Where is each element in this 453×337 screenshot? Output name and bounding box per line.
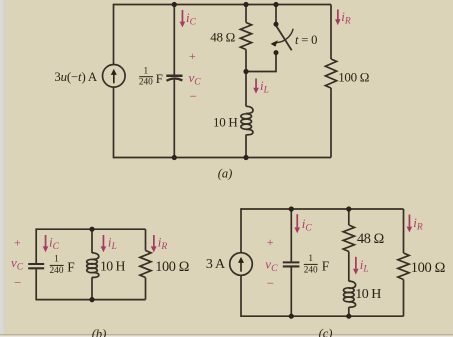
svg-text:1: 1 <box>143 66 148 76</box>
node dot switch-top (a) <box>273 2 278 7</box>
switch motion arc (a) <box>274 29 294 43</box>
wire: resistor to bottom rail (c) <box>403 280 405 317</box>
source arrows (black) <box>111 40 278 271</box>
wire: top rail (b) <box>36 228 145 230</box>
inductor L1 coil (a) <box>246 106 253 113</box>
wire: capacitor branch lower (a) <box>173 79 175 158</box>
left page-edge strip <box>0 0 4 337</box>
svg-text:48 Ω: 48 Ω <box>357 231 384 247</box>
svg-text:−: − <box>190 89 197 104</box>
svg-text:−: − <box>267 276 274 291</box>
capacitor C1 curved plate (a) <box>167 79 183 81</box>
source arrow (c) <box>240 261 242 272</box>
arrow iC (c) <box>296 214 298 227</box>
capacitor C3 top plate (c) <box>283 261 300 263</box>
node dot inductor-bottom (b) <box>89 297 94 302</box>
wire: bottom rail (c) <box>241 315 404 317</box>
svg-text:−: − <box>14 275 21 290</box>
arrow iC (b) <box>45 235 47 247</box>
svg-text:F: F <box>156 72 163 86</box>
svg-text:10 H: 10 H <box>355 287 381 302</box>
current source I1 circle (a) <box>103 65 126 88</box>
svg-text:100 Ω: 100 Ω <box>155 259 189 275</box>
svg-text:100 Ω: 100 Ω <box>411 260 446 276</box>
arrow iL (b) <box>103 235 105 247</box>
node dot inductor-top (b) <box>89 227 94 232</box>
arrow iL (c) <box>355 257 357 269</box>
wire: switch branch upper stub (a) <box>275 5 277 24</box>
wire: bottom rail (a) <box>114 157 332 159</box>
wire: 48-ohm to junction (a) <box>245 50 247 107</box>
node dot inductor-bottom (a) <box>243 155 248 160</box>
wire: inductor to bottom rail (b) <box>91 277 93 299</box>
wire: top rail (a) <box>114 4 332 6</box>
wire: resistor to bottom rail (b) <box>145 278 147 300</box>
svg-text:F: F <box>67 260 74 275</box>
capacitor C1 top plate (a) <box>166 74 182 77</box>
capacitor C2 top plate (b) <box>28 263 44 265</box>
svg-text:1: 1 <box>54 255 59 265</box>
resistor R48 zigzag (c) <box>343 225 354 252</box>
wire: left branch below source (a) <box>113 87 115 158</box>
wire: left branch above source (a) <box>113 4 115 65</box>
wire: inductor branch upper (b) <box>91 229 93 253</box>
switch upper terminal (a) <box>274 22 279 27</box>
arrow iR (a) <box>337 10 339 21</box>
switch blade (a) <box>276 26 292 51</box>
wire: cap branch upper (c) <box>290 209 292 261</box>
arrow iR (b) <box>153 235 155 247</box>
capacitor C3 bottom plate (c) <box>283 265 300 267</box>
svg-text:(b): (b) <box>92 327 107 337</box>
node dot middle-top (c) <box>346 206 351 211</box>
node dot 48ohm-top (a) <box>243 2 248 7</box>
svg-text:(c): (c) <box>319 327 333 337</box>
svg-text:1: 1 <box>308 254 313 264</box>
svg-text:3 A: 3 A <box>206 257 226 272</box>
svg-text:+: + <box>189 49 196 63</box>
wire: 48-ohm branch top stub (a) <box>245 5 247 23</box>
wire: switch lower stub to elbow (a) <box>245 54 276 72</box>
inductor L2 coil (b) <box>92 253 99 260</box>
label 1/240 F (b) <box>50 255 75 276</box>
svg-text:240: 240 <box>50 266 64 276</box>
wire: capacitor branch upper (a) <box>173 5 175 76</box>
wire: 100-ohm to bottom rail (a) <box>330 88 332 158</box>
arrow iL (a) <box>255 79 257 89</box>
switch lower terminal (a) <box>274 50 279 55</box>
current source I2 circle (c) <box>230 253 253 276</box>
wire: middle branch top stub (c) <box>348 209 350 225</box>
svg-text:+: + <box>267 235 274 249</box>
label 1/240 F (c) <box>304 254 330 276</box>
node dot cap-top (a) <box>172 2 177 7</box>
svg-text:240: 240 <box>304 265 318 275</box>
wire: bottom rail (b) <box>36 299 145 301</box>
resistor R100 zigzag (a) <box>325 59 336 88</box>
wire: 100-ohm branch top stub (a) <box>330 5 332 60</box>
svg-text:3u(−t) A: 3u(−t) A <box>54 70 98 84</box>
wire: resistor to inductor (c) <box>348 252 350 282</box>
wire: inductor to bottom rail (c) <box>348 307 350 316</box>
svg-text:(a): (a) <box>218 166 233 180</box>
pink current arrows <box>43 10 413 275</box>
source arrow (a) <box>113 73 115 84</box>
svg-text:F: F <box>322 259 329 274</box>
wire: source branch upper (c) <box>240 208 242 253</box>
wire: inductor to bottom rail (a) <box>245 135 247 158</box>
wire: top rail (c) <box>241 208 404 210</box>
svg-text:48 Ω: 48 Ω <box>210 29 235 44</box>
capacitor C2 bottom plate (b) <box>28 267 44 269</box>
inductor L3 coil (c) <box>349 281 356 288</box>
svg-text:240: 240 <box>139 78 153 88</box>
svg-text:100 Ω: 100 Ω <box>338 69 369 84</box>
wire: cap branch lower (c) <box>290 267 292 316</box>
node dot elbow junction (a) <box>243 69 248 74</box>
wire: cap branch upper (b) <box>35 228 37 263</box>
wire: resistor branch upper (b) <box>145 229 147 250</box>
bottom page edge <box>0 334 453 335</box>
svg-text:+: + <box>14 236 21 250</box>
resistor R100 zigzag (c) <box>398 253 409 280</box>
label 1/240 F (a) <box>139 66 163 87</box>
svg-text:10 H: 10 H <box>213 115 237 130</box>
node dot cap-top (c) <box>289 206 294 211</box>
wire: right branch upper (c) <box>403 209 405 253</box>
node dot middle-bottom (c) <box>346 314 351 319</box>
wire: source branch lower (c) <box>240 275 242 317</box>
svg-text:10 H: 10 H <box>100 259 125 274</box>
node dot cap-bottom (c) <box>289 314 294 319</box>
arrow iC (a) <box>182 10 184 23</box>
node dot cap-bottom (a) <box>172 155 177 160</box>
resistor R48 zigzag (a) <box>240 23 251 50</box>
switch arc arrowhead (a) <box>271 40 278 46</box>
wire: cap branch lower (b) <box>35 269 37 300</box>
svg-text:t = 0: t = 0 <box>295 33 317 47</box>
arrow iR (c) <box>409 215 411 227</box>
resistor R100 zigzag (b) <box>140 251 151 278</box>
